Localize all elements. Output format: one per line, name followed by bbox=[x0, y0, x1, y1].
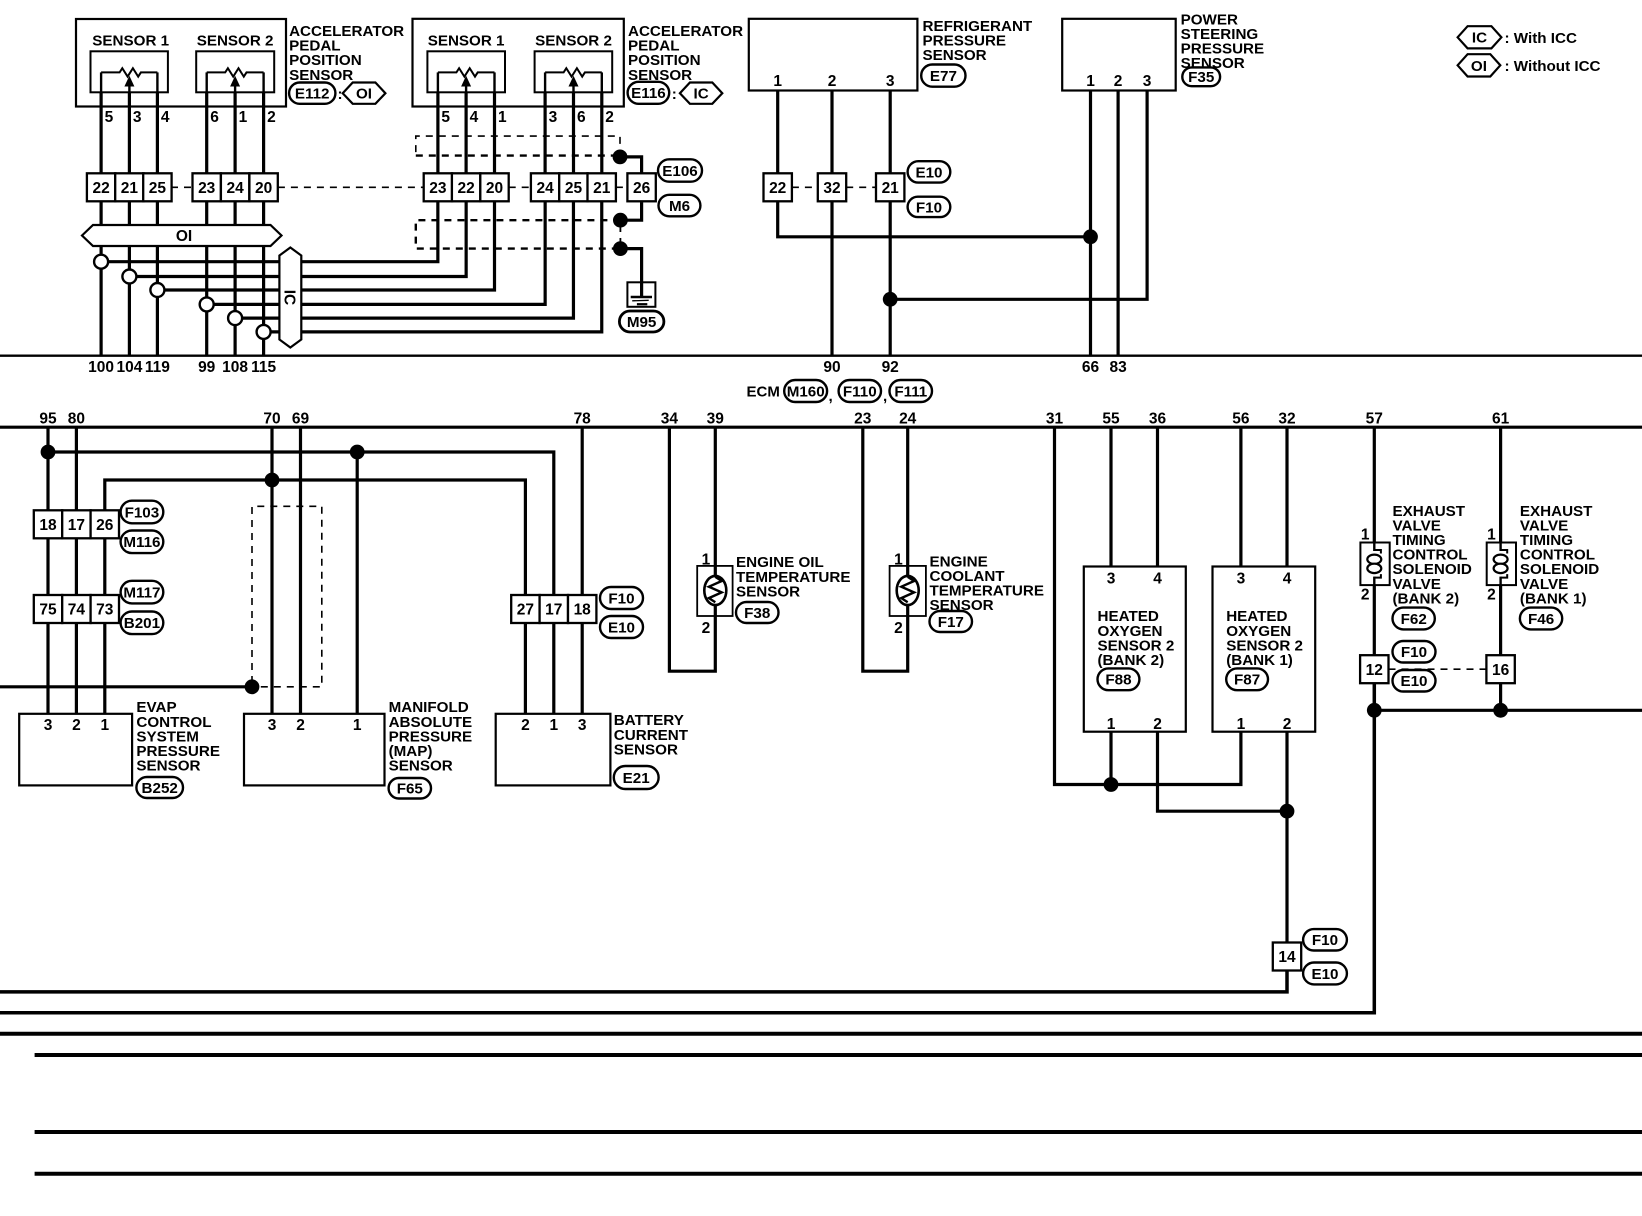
junction solenoid bus 61 bbox=[1493, 703, 1508, 718]
option splice circle 3 bbox=[150, 283, 164, 297]
wire E77 pin1 to junction bbox=[778, 201, 1091, 237]
option splice circle 2 bbox=[122, 270, 136, 284]
svg-text:2: 2 bbox=[894, 620, 903, 637]
junction ECM95 bus bbox=[41, 445, 56, 460]
svg-text:2: 2 bbox=[1283, 716, 1292, 733]
svg-text:21: 21 bbox=[121, 180, 139, 197]
svg-text:115: 115 bbox=[251, 359, 276, 376]
svg-text:5: 5 bbox=[441, 109, 450, 126]
svg-text:F110: F110 bbox=[843, 383, 877, 400]
connector cell E112 21 bbox=[115, 173, 143, 201]
wire E116 pin to connector 1 bbox=[436, 92, 439, 173]
dashed link 12-16 bbox=[1389, 668, 1487, 670]
svg-text:80: 80 bbox=[68, 410, 85, 427]
ground symbol bbox=[627, 282, 655, 307]
svg-text:95: 95 bbox=[39, 410, 57, 427]
connector cell 12 bbox=[1360, 655, 1388, 683]
svg-text:1: 1 bbox=[1487, 527, 1496, 544]
junction F88 pin1 bbox=[1104, 777, 1119, 792]
bus line 1 bbox=[0, 1032, 1642, 1036]
svg-text:22: 22 bbox=[92, 180, 109, 197]
svg-text:SENSOR 1: SENSOR 1 bbox=[92, 32, 169, 49]
junction solenoid bus 57 bbox=[1367, 703, 1382, 718]
wire F46 pin2 to connector 16 bbox=[1499, 585, 1502, 655]
svg-text:6: 6 bbox=[210, 109, 219, 126]
wire ECM 70 to MAP pin3 bbox=[270, 427, 273, 714]
svg-text:M117: M117 bbox=[123, 585, 160, 602]
svg-text:69: 69 bbox=[292, 410, 310, 427]
wire E112 connector 4 to ECM bbox=[205, 201, 208, 355]
svg-text:(BANK 2): (BANK 2) bbox=[1098, 652, 1165, 669]
svg-text:2: 2 bbox=[828, 73, 837, 90]
svg-text:1: 1 bbox=[894, 552, 903, 569]
OI flag E112 bbox=[343, 83, 386, 104]
connector F10 low bbox=[1303, 929, 1347, 950]
svg-text:E112: E112 bbox=[295, 86, 330, 103]
svg-text:22: 22 bbox=[457, 180, 474, 197]
svg-text:SENSOR 2: SENSOR 2 bbox=[535, 32, 612, 49]
connector cell 26 row1 bbox=[91, 510, 119, 538]
connector cell E116 20 bbox=[480, 173, 508, 201]
svg-text:4: 4 bbox=[470, 109, 479, 126]
wire F87 pin2 to connector 14 bbox=[1285, 732, 1288, 943]
svg-text:27: 27 bbox=[517, 602, 534, 619]
wire solenoid ground bus to right edge bbox=[1374, 709, 1642, 712]
svg-text:E77: E77 bbox=[930, 68, 957, 85]
connector cell E77 32 bbox=[818, 173, 846, 201]
wire E77 pin2 to ECM 90 bbox=[830, 201, 833, 355]
wire E116 pin to connector 5 bbox=[572, 92, 575, 173]
junction MAP pin1 bus bbox=[350, 445, 365, 460]
connector cell E112 20 bbox=[249, 173, 277, 201]
svg-text:3: 3 bbox=[44, 717, 53, 734]
connector cell 18 row1 bbox=[34, 510, 62, 538]
bus line 2 bbox=[35, 1053, 1642, 1057]
IC option banner bbox=[279, 248, 301, 348]
svg-text:20: 20 bbox=[255, 180, 272, 197]
svg-text:OI: OI bbox=[176, 228, 192, 245]
wire connector 14 to left edge bbox=[0, 971, 1287, 992]
svg-text:32: 32 bbox=[1278, 410, 1295, 427]
svg-text:25: 25 bbox=[565, 180, 583, 197]
wire left stub to ground bus bbox=[0, 685, 252, 688]
svg-text:5: 5 bbox=[105, 109, 114, 126]
dashed link E116 21-26 bbox=[616, 186, 628, 188]
junction F88/F87 pin2 bbox=[1280, 804, 1295, 819]
svg-text:17: 17 bbox=[545, 602, 562, 619]
connector cell E116 21 bbox=[588, 173, 616, 201]
svg-text:M6: M6 bbox=[669, 198, 690, 215]
dashed option box MAP bbox=[252, 506, 322, 687]
svg-text:3: 3 bbox=[1143, 73, 1152, 90]
svg-text:24: 24 bbox=[226, 180, 244, 197]
svg-text:SENSOR 2: SENSOR 2 bbox=[197, 32, 274, 49]
option splice circle 4 bbox=[200, 297, 214, 311]
svg-text:1: 1 bbox=[1107, 716, 1116, 733]
option splice circle 5 bbox=[228, 311, 242, 325]
svg-text:23: 23 bbox=[198, 180, 216, 197]
svg-text:3: 3 bbox=[549, 109, 558, 126]
wire ECM 57 to solenoid F62 bbox=[1373, 427, 1376, 542]
svg-text:F10: F10 bbox=[608, 590, 634, 607]
wire ECM 36 to F88 pin4 bbox=[1156, 427, 1159, 566]
connector F65 bbox=[389, 778, 431, 799]
connector F38 bbox=[736, 602, 779, 623]
svg-text:F10: F10 bbox=[916, 199, 942, 216]
svg-text:1: 1 bbox=[498, 109, 507, 126]
svg-text:E106: E106 bbox=[662, 163, 697, 180]
wire E116 connector 5 cross-link bbox=[235, 201, 573, 318]
svg-text:1: 1 bbox=[353, 717, 362, 734]
svg-text:23: 23 bbox=[429, 180, 447, 197]
power steering pressure sensor F35 box bbox=[1062, 19, 1176, 91]
connector F111 bbox=[890, 380, 933, 402]
potentiometer E112 sensor2 bbox=[196, 51, 274, 92]
connector cell 27 bbox=[511, 595, 539, 623]
wire E116 pin to connector 3 bbox=[493, 92, 496, 173]
svg-text:1: 1 bbox=[549, 717, 558, 734]
wire E77 pin1 to connector 22 bbox=[776, 91, 779, 174]
svg-text:4: 4 bbox=[1283, 571, 1292, 588]
svg-text:F46: F46 bbox=[1528, 611, 1554, 628]
svg-text:25: 25 bbox=[149, 180, 167, 197]
svg-text:21: 21 bbox=[593, 180, 611, 197]
svg-text:1: 1 bbox=[239, 109, 248, 126]
wire E112 connector 1 to ECM bbox=[99, 201, 102, 355]
svg-text:SENSOR: SENSOR bbox=[136, 757, 200, 774]
svg-text:F103: F103 bbox=[125, 504, 160, 521]
svg-text:M95: M95 bbox=[627, 314, 657, 331]
svg-text:4: 4 bbox=[1153, 571, 1162, 588]
wire splice to connector 26 bbox=[620, 157, 642, 174]
svg-text:SENSOR: SENSOR bbox=[289, 67, 353, 84]
wire ground bus EVAP pin1 to battery pin2 bbox=[105, 480, 526, 714]
svg-text:OI: OI bbox=[1471, 58, 1487, 75]
svg-text:56: 56 bbox=[1232, 410, 1250, 427]
svg-text:B201: B201 bbox=[124, 615, 161, 632]
heated oxygen sensor 2 bank 2 box bbox=[1084, 567, 1186, 732]
wire E116 pin to connector 4 bbox=[543, 92, 546, 173]
svg-text:F111: F111 bbox=[894, 383, 927, 400]
connector M116 bbox=[121, 531, 164, 554]
legend IC flag bbox=[1458, 26, 1502, 48]
connector F62 bbox=[1393, 608, 1435, 630]
engine oil temperature sensor F38 bbox=[697, 566, 732, 616]
svg-text:2: 2 bbox=[296, 717, 305, 734]
wire ECM 32 to F87 pin4 bbox=[1285, 427, 1288, 566]
connector E10 mid bbox=[600, 616, 643, 638]
svg-text:100: 100 bbox=[88, 359, 114, 376]
refrigerant pressure sensor E77 box bbox=[749, 19, 918, 91]
svg-text:2: 2 bbox=[1487, 587, 1496, 604]
svg-text:18: 18 bbox=[39, 517, 57, 534]
connector cell 18 bbox=[568, 595, 596, 623]
wire E116 connector 4 cross-link bbox=[207, 201, 546, 304]
solenoid valve F62 bbox=[1360, 543, 1389, 586]
svg-text:E10: E10 bbox=[608, 619, 635, 636]
wire splice to ground bbox=[620, 249, 641, 283]
MAP sensor box bbox=[244, 714, 385, 786]
svg-text:3: 3 bbox=[1107, 571, 1116, 588]
svg-text:(BANK 1): (BANK 1) bbox=[1520, 590, 1587, 607]
connector cell 26 bbox=[627, 173, 655, 201]
splice dot ground bbox=[613, 241, 628, 256]
connector M6 bbox=[659, 195, 701, 217]
svg-text:24: 24 bbox=[536, 180, 554, 197]
wire E112 pin to connector 4 bbox=[205, 92, 208, 173]
svg-text:1: 1 bbox=[702, 552, 711, 569]
wire ECM 80 to EVAP pin2 bbox=[75, 427, 78, 714]
svg-text:2: 2 bbox=[1114, 73, 1123, 90]
svg-text:17: 17 bbox=[68, 517, 85, 534]
wire ECM 95 to EVAP pin3 bbox=[46, 427, 49, 714]
connector F10 mid bbox=[600, 587, 643, 609]
svg-text:M116: M116 bbox=[123, 534, 160, 551]
svg-text:(BANK 1): (BANK 1) bbox=[1226, 652, 1293, 669]
svg-text:14: 14 bbox=[1278, 949, 1296, 966]
bus line 4 bbox=[35, 1172, 1642, 1176]
IC flag E116 bbox=[680, 83, 722, 104]
wire ECM 69 to MAP pin2 bbox=[299, 427, 302, 714]
connector B201 bbox=[121, 612, 164, 635]
connector cell 73 row2 bbox=[91, 595, 119, 623]
wire E116 connector 6 cross-link bbox=[264, 201, 602, 332]
svg-text:2: 2 bbox=[72, 717, 81, 734]
svg-text:36: 36 bbox=[1149, 410, 1167, 427]
connector F46 bbox=[1520, 608, 1562, 630]
wire E77 pin3 to connector 21 bbox=[889, 91, 892, 174]
connector cell E77 21 bbox=[876, 173, 904, 201]
svg-text:F65: F65 bbox=[397, 781, 424, 798]
wire connector 26 to splice bbox=[620, 202, 641, 220]
svg-text:12: 12 bbox=[1366, 662, 1383, 679]
wire E112 pin to connector 3 bbox=[156, 92, 159, 173]
ECM box top edge bbox=[0, 355, 1642, 357]
wire F88 pin1 to bus bbox=[1109, 732, 1112, 785]
svg-text:1: 1 bbox=[100, 717, 109, 734]
wire F62 pin2 to connector 12 bbox=[1373, 585, 1376, 655]
connector cell E112 22 bbox=[87, 173, 115, 201]
svg-text:F35: F35 bbox=[1188, 69, 1215, 86]
junction ECM70 ground bus bbox=[265, 473, 280, 488]
svg-text:(BANK 2): (BANK 2) bbox=[1393, 590, 1460, 607]
svg-text:90: 90 bbox=[823, 359, 840, 376]
svg-text:6: 6 bbox=[577, 109, 586, 126]
wire branch to MAP pin1 bbox=[356, 452, 359, 714]
svg-text:70: 70 bbox=[263, 410, 280, 427]
connector M117 bbox=[121, 581, 164, 604]
wire E112 connector 5 to ECM bbox=[234, 201, 237, 355]
dashed link E112-E116 bbox=[278, 186, 424, 188]
connector F87 bbox=[1226, 668, 1268, 690]
svg-text:2: 2 bbox=[267, 109, 276, 126]
dashed option box E116 upper bbox=[416, 136, 620, 157]
heated oxygen sensor 2 bank 1 box bbox=[1213, 567, 1316, 732]
wire E112 connector 6 to ECM bbox=[262, 201, 265, 355]
connector cell 75 row2 bbox=[34, 595, 62, 623]
junction E77 pin3 bbox=[883, 292, 898, 307]
wire connector 16 to bus bbox=[1499, 683, 1502, 710]
svg-text:M160: M160 bbox=[787, 383, 825, 400]
svg-text:2: 2 bbox=[1153, 716, 1162, 733]
accelerator pedal position sensor E112 box bbox=[76, 19, 286, 107]
svg-text:1: 1 bbox=[773, 73, 782, 90]
svg-text:2: 2 bbox=[1361, 587, 1370, 604]
wire ECM 31 to HO2S ground bus bbox=[1055, 427, 1241, 784]
svg-text:SENSOR: SENSOR bbox=[614, 741, 678, 758]
option splice circle 6 bbox=[257, 325, 271, 339]
svg-text:73: 73 bbox=[96, 602, 114, 619]
svg-text:: With ICC: : With ICC bbox=[1505, 30, 1577, 47]
svg-text:E10: E10 bbox=[1400, 673, 1427, 690]
connector cell E112 24 bbox=[221, 173, 249, 201]
svg-text:SENSOR: SENSOR bbox=[923, 47, 987, 64]
connector F17 bbox=[930, 611, 973, 632]
wire E116 connector 2 cross-link bbox=[129, 201, 466, 276]
svg-text:SENSOR 1: SENSOR 1 bbox=[428, 32, 505, 49]
connector E106 bbox=[658, 159, 702, 181]
wire 5V bus to battery sensor pin1 bbox=[48, 452, 554, 714]
wire E112 pin to connector 5 bbox=[234, 92, 237, 173]
svg-text:92: 92 bbox=[882, 359, 899, 376]
svg-text:3: 3 bbox=[133, 109, 142, 126]
svg-text:IC: IC bbox=[694, 86, 709, 103]
wire ECM 55 to F88 pin3 bbox=[1109, 427, 1112, 566]
option splice circle 1 bbox=[94, 255, 108, 269]
wire E77 pin3 to F35 pin3 bbox=[890, 91, 1147, 300]
EVAP control system pressure sensor box bbox=[19, 714, 132, 786]
wire E77 pin2 to connector 32 bbox=[830, 91, 833, 174]
svg-text:F10: F10 bbox=[1401, 644, 1427, 661]
connector E10 low bbox=[1303, 963, 1347, 985]
svg-text:3: 3 bbox=[886, 73, 895, 90]
ECM box bottom edge bbox=[0, 426, 1642, 429]
svg-text:OI: OI bbox=[356, 86, 372, 103]
svg-text:: Without ICC: : Without ICC bbox=[1505, 58, 1601, 75]
svg-text:1: 1 bbox=[1086, 73, 1095, 90]
svg-text:18: 18 bbox=[574, 602, 592, 619]
svg-text:3: 3 bbox=[578, 717, 587, 734]
svg-text:F17: F17 bbox=[938, 614, 964, 631]
connector F10 top bbox=[908, 197, 951, 217]
battery current sensor box bbox=[496, 714, 611, 786]
svg-text:E10: E10 bbox=[1311, 966, 1338, 983]
svg-text:83: 83 bbox=[1109, 359, 1127, 376]
wire F35 pin2 to ECM 83 bbox=[1116, 91, 1119, 356]
connector B252 bbox=[136, 777, 183, 798]
wire connector 12 down to left edge bbox=[0, 683, 1374, 1013]
svg-text:26: 26 bbox=[633, 180, 651, 197]
connector cell E116 23 bbox=[424, 173, 452, 201]
wire F88 pin2 to junction bbox=[1158, 732, 1288, 812]
svg-text:F88: F88 bbox=[1105, 672, 1131, 689]
dashed link E77 32-21 bbox=[846, 186, 876, 188]
svg-text:74: 74 bbox=[68, 602, 86, 619]
connector F10 sol bbox=[1393, 641, 1436, 663]
potentiometer E116 sensor1 bbox=[427, 51, 505, 92]
wire E116 connector 3 cross-link bbox=[157, 201, 494, 290]
wire E112 connector 2 to ECM bbox=[128, 201, 131, 355]
connector cell 74 row2 bbox=[62, 595, 90, 623]
svg-text:16: 16 bbox=[1492, 662, 1510, 679]
svg-text:34: 34 bbox=[661, 410, 679, 427]
ground connector M95 bbox=[619, 311, 664, 332]
svg-text:22: 22 bbox=[769, 180, 786, 197]
svg-text:39: 39 bbox=[707, 410, 725, 427]
svg-text:3: 3 bbox=[1237, 571, 1246, 588]
svg-text:1: 1 bbox=[1237, 716, 1246, 733]
splice dot M6 mid bbox=[613, 213, 628, 228]
svg-text:IC: IC bbox=[1472, 30, 1487, 47]
svg-text:F87: F87 bbox=[1234, 672, 1260, 689]
connector E77 bbox=[921, 65, 965, 87]
svg-text:,: , bbox=[883, 388, 887, 405]
connector E10 top bbox=[908, 161, 951, 182]
svg-text:E116: E116 bbox=[631, 85, 666, 102]
svg-text:119: 119 bbox=[145, 359, 170, 376]
wire ECM 23-24 coolant temp loop bbox=[863, 427, 908, 671]
svg-text:F62: F62 bbox=[1401, 611, 1427, 628]
connector E21 bbox=[614, 766, 659, 789]
svg-text:31: 31 bbox=[1046, 410, 1064, 427]
potentiometer E116 sensor2 bbox=[535, 51, 613, 92]
connector F88 bbox=[1098, 668, 1140, 690]
wire ECM 78 to battery pin3 bbox=[581, 427, 584, 714]
svg-text:57: 57 bbox=[1366, 410, 1383, 427]
connector cell 16 bbox=[1486, 655, 1514, 683]
svg-text:32: 32 bbox=[823, 180, 840, 197]
wire E112 pin to connector 6 bbox=[262, 92, 265, 173]
svg-text:2: 2 bbox=[521, 717, 530, 734]
accelerator pedal position sensor E116 box bbox=[413, 19, 624, 107]
wire E77 pin3 to ECM 92 bbox=[889, 201, 892, 355]
svg-text:104: 104 bbox=[116, 359, 142, 376]
svg-text:21: 21 bbox=[882, 180, 900, 197]
svg-text:F38: F38 bbox=[744, 605, 770, 622]
svg-text:75: 75 bbox=[39, 602, 57, 619]
dashed link E77 22-32 bbox=[792, 186, 818, 188]
connector cell 17 row1 bbox=[62, 510, 90, 538]
svg-text:99: 99 bbox=[198, 359, 216, 376]
svg-text:1: 1 bbox=[1361, 527, 1370, 544]
svg-text:,: , bbox=[829, 388, 833, 405]
connector cell 17 bbox=[540, 595, 568, 623]
svg-text:108: 108 bbox=[222, 359, 248, 376]
solenoid valve F46 bbox=[1487, 543, 1516, 586]
wire E116 connector 1 cross-link bbox=[101, 201, 438, 261]
OI option banner bbox=[82, 225, 282, 246]
connector E10 sol bbox=[1393, 670, 1436, 692]
svg-text:4: 4 bbox=[161, 109, 170, 126]
wire ECM 61 to solenoid F46 bbox=[1499, 427, 1502, 542]
svg-text:2: 2 bbox=[702, 620, 711, 637]
wire E112 pin to connector 2 bbox=[128, 92, 131, 173]
wire E112 connector 3 to ECM bbox=[156, 201, 159, 355]
dashed link E112 25-23 bbox=[171, 186, 192, 188]
svg-text:E21: E21 bbox=[623, 770, 651, 787]
connector E112 bbox=[289, 83, 335, 104]
svg-text:SENSOR: SENSOR bbox=[389, 757, 453, 774]
svg-text:66: 66 bbox=[1082, 359, 1100, 376]
connector cell 14 bbox=[1273, 943, 1301, 971]
svg-text:B252: B252 bbox=[142, 780, 178, 797]
bus line 3 bbox=[35, 1130, 1642, 1134]
wire ECM 56 to F87 pin3 bbox=[1239, 427, 1242, 566]
svg-text:IC: IC bbox=[281, 290, 298, 306]
connector F103 bbox=[121, 501, 164, 524]
wire E116 pin to connector 2 bbox=[465, 92, 468, 173]
potentiometer E112 sensor1 bbox=[91, 51, 168, 92]
